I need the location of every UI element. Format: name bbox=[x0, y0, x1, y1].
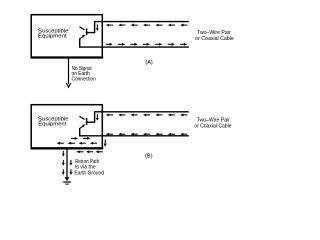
svg-text:Earth Ground: Earth Ground bbox=[74, 171, 104, 177]
svg-text:(B): (B) bbox=[145, 153, 153, 159]
svg-text:Two–Wire Pair: Two–Wire Pair bbox=[197, 30, 231, 36]
svg-text:Equipment: Equipment bbox=[38, 34, 67, 40]
svg-text:Connection: Connection bbox=[72, 77, 96, 83]
svg-text:or Coaxial Cable: or Coaxial Cable bbox=[194, 123, 231, 129]
svg-text:or Coaxial Cable: or Coaxial Cable bbox=[195, 36, 234, 42]
svg-text:is via the: is via the bbox=[75, 164, 96, 170]
svg-text:(A): (A) bbox=[145, 60, 153, 66]
svg-text:Equipment: Equipment bbox=[38, 122, 66, 128]
